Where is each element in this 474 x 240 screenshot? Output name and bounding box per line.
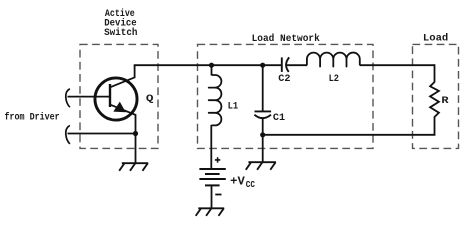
inductor L1: [209, 65, 222, 169]
wire L2 to load: [360, 64, 435, 66]
ground at battery: [196, 208, 225, 216]
ground at transistor emitter: [119, 163, 148, 171]
capacitor C2: [282, 57, 289, 72]
wire main top: [134, 64, 282, 66]
capacitor C1: [254, 65, 271, 135]
battery plus sign: [215, 157, 220, 162]
wire C2 to L2: [287, 64, 307, 66]
transistor Q: [95, 65, 137, 133]
input squiggle upper: [66, 89, 70, 107]
svg-text:C1: C1: [273, 113, 285, 124]
label Active Device Switch: [104, 8, 137, 39]
svg-text:Switch: Switch: [104, 27, 137, 39]
dashed box: Load Network: [198, 44, 374, 148]
svg-text:L2: L2: [329, 74, 339, 85]
inductor L2: [307, 53, 360, 67]
label +VCC: [230, 175, 255, 190]
svg-text:Load: Load: [423, 33, 448, 45]
dashed box: Active Device Switch: [80, 44, 158, 148]
battery minus sign: [215, 194, 221, 196]
node dot C1 bottom: [260, 132, 265, 137]
input squiggle lower: [66, 126, 70, 144]
resistor R: [430, 64, 439, 135]
wire C1 to ground: [262, 135, 264, 162]
dashed box: Load: [413, 44, 459, 148]
node dot emitter junction: [133, 131, 138, 136]
wire battery to ground: [211, 185, 213, 208]
node dot L1 top: [209, 63, 214, 68]
svg-text:CC: CC: [246, 180, 256, 190]
svg-text:Q: Q: [146, 94, 154, 105]
svg-text:+V: +V: [230, 175, 245, 188]
wire base input: [68, 96, 110, 98]
ground at C1: [246, 162, 276, 170]
svg-text:L1: L1: [228, 101, 239, 112]
node dot C1 top: [260, 63, 265, 68]
svg-text:C2: C2: [278, 74, 290, 85]
wire bottom return: [263, 134, 436, 136]
battery VCC: [199, 169, 225, 185]
svg-text:Load Network: Load Network: [252, 33, 320, 45]
svg-text:R: R: [441, 96, 449, 107]
wire emitter to ground: [135, 134, 137, 164]
svg-text:from Driver: from Driver: [5, 112, 60, 124]
wire lower input: [68, 133, 136, 135]
